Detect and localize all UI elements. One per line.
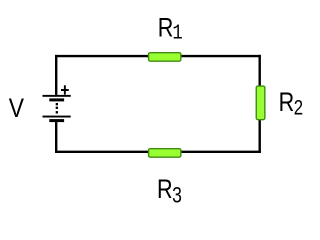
battery V (source) (43, 85, 71, 122)
svg-text:R: R (158, 13, 174, 43)
label R3 (157, 175, 182, 208)
svg-text:3: 3 (172, 184, 182, 208)
svg-text:V: V (9, 93, 25, 123)
wire: left vertical segment from battery + terminal up to top rail (55, 55, 57, 95)
label V (9, 93, 25, 123)
plate (short thick, bottom cell -) (49, 119, 64, 122)
svg-text:R: R (279, 88, 295, 118)
plate (long, bottom cell +) (43, 116, 71, 118)
resistor R2 (256, 86, 265, 120)
wire: right vertical rail (through R2) (259, 55, 261, 153)
svg-text:R: R (157, 175, 173, 205)
resistor R1 (149, 53, 181, 62)
svg-text:2: 2 (294, 97, 303, 120)
plate (short thick, top cell -) (49, 98, 64, 101)
label R2 (279, 88, 304, 120)
dashed cell separator (56, 103, 58, 105)
label R1 (158, 13, 183, 45)
resistor R3 (149, 149, 181, 158)
wire: bottom rail (node between R2 and R3, through R3 to V-) (55, 151, 261, 153)
svg-text:1: 1 (172, 21, 182, 45)
wire: top rail (node between V+ and R1, through R1 to R2) (55, 55, 261, 57)
plate (long, top cell +) (43, 95, 71, 97)
wire: left vertical segment from battery - terminal down to bottom rail (55, 122, 57, 153)
plus polarity mark (61, 85, 69, 94)
